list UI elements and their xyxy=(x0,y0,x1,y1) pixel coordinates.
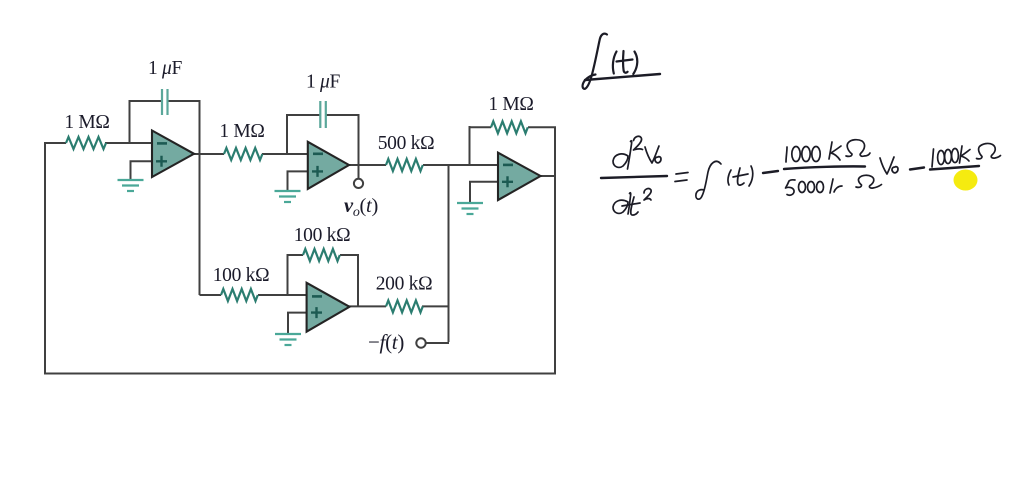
svg-text:1 μF: 1 μF xyxy=(306,72,341,93)
wire stage1 feedback top left xyxy=(129,100,162,102)
wire stage1 feedback top right xyxy=(168,100,201,102)
hw o sub xyxy=(655,157,661,163)
hw V of Vo xyxy=(645,146,659,163)
resistor R3 500 kohm xyxy=(386,159,423,171)
hw minus 1 xyxy=(763,171,778,173)
hw ) of f(t) xyxy=(749,166,753,186)
wire stage2 right vertical to terminal xyxy=(358,114,360,178)
hw 5 of den2 xyxy=(786,180,796,195)
svg-text:100 kΩ: 100 kΩ xyxy=(213,265,270,286)
hw omega of den2 xyxy=(856,175,882,188)
hw omega of num3 xyxy=(977,143,1001,158)
svg-text:1 MΩ: 1 MΩ xyxy=(64,112,109,133)
hw title underline xyxy=(585,74,660,80)
hw ( of f(t) xyxy=(728,170,731,185)
hw title ( xyxy=(613,52,617,74)
wire input stage1 right xyxy=(105,142,153,144)
hw frac bar 2 xyxy=(784,166,865,169)
ground stage1 xyxy=(118,180,144,191)
wire R2 to opamp2 xyxy=(262,153,308,155)
svg-text:1 MΩ: 1 MΩ xyxy=(488,94,533,115)
handwriting group xyxy=(583,34,1001,215)
wire R7 to node xyxy=(422,305,449,307)
wire -f(t) terminal to node xyxy=(426,342,449,344)
hw t of dt2 xyxy=(631,197,638,215)
wire stage3 feedback top left xyxy=(469,126,492,128)
hw sup 2 xyxy=(634,136,643,150)
wire left rail xyxy=(44,142,46,374)
hw title f xyxy=(583,34,607,89)
resistor R4 1 Mohm feedback stage3 xyxy=(491,121,528,133)
terminal -f(t) xyxy=(416,338,425,347)
yellow highlight dot xyxy=(954,170,978,191)
hw 1 of num2 xyxy=(786,147,787,162)
hw title t xyxy=(623,51,628,73)
svg-text:500 kΩ: 500 kΩ xyxy=(378,133,435,154)
hw 000 of den2 xyxy=(799,182,806,193)
resistor R5 100 kohm stage4 input xyxy=(221,289,258,301)
hw lc (k) of den2 xyxy=(830,179,833,193)
svg-text:1 MΩ: 1 MΩ xyxy=(219,121,264,142)
hw 2 sup of dt2 xyxy=(644,189,651,200)
ground stage2 xyxy=(275,191,301,202)
hw title ) xyxy=(633,52,637,75)
hw k of num2 xyxy=(829,142,832,159)
wire stage2 plus input xyxy=(288,171,309,190)
ground stage3 xyxy=(457,203,483,214)
svg-text:200 kΩ: 200 kΩ xyxy=(376,274,433,295)
terminal vo(t) xyxy=(354,179,363,188)
hw frac bar 1 xyxy=(601,176,667,178)
wire R3 to opamp3 xyxy=(423,164,499,166)
resistor R6 100 kohm feedback stage4 xyxy=(303,249,340,261)
wire stage2 output xyxy=(347,164,386,166)
node junction vertical xyxy=(448,165,450,342)
svg-text:vo(t): vo(t) xyxy=(344,195,378,220)
wire stage4 plus input xyxy=(288,313,308,333)
wire stage1 feedback left vertical xyxy=(129,100,131,143)
wire input stage1 left xyxy=(44,142,66,144)
wire stage4 output xyxy=(348,305,386,307)
wire stage1 output horizontal xyxy=(193,153,224,155)
wire stage4 feedback top right xyxy=(340,254,359,256)
wire bottom rail xyxy=(44,373,555,375)
hw d of d2Vo xyxy=(628,141,632,169)
wire stage3 output xyxy=(539,175,556,177)
hw 000 of num3 xyxy=(938,151,945,165)
wire stage2 feedback top left xyxy=(286,114,320,116)
svg-text:−f(t): −f(t) xyxy=(368,330,404,354)
wire stage3 plus input xyxy=(470,182,499,202)
wire stage4 input from node xyxy=(200,294,222,296)
resistor R7 200 kohm xyxy=(386,300,423,312)
hw t of f(t) xyxy=(738,168,744,185)
op-amp U4 xyxy=(307,283,350,332)
hw frac bar 3 xyxy=(930,166,979,170)
hw V of Vo term xyxy=(880,157,894,174)
resistor R1 1 Mohm input stage1 xyxy=(66,137,106,149)
wire stage4 feedback top left xyxy=(287,254,304,256)
resistor R2 1 Mohm stage2 input xyxy=(224,148,262,160)
hw minus 2 xyxy=(910,168,924,170)
wire stage3 feedback left vertical xyxy=(469,126,471,165)
wire stage3 feedback top right xyxy=(528,126,556,128)
hw d of dt2 xyxy=(628,193,631,214)
hw 000 of num2 xyxy=(792,147,800,162)
wire stage1 plus input xyxy=(131,161,154,179)
wire stage1 output vertical xyxy=(199,100,201,295)
wire R5 to opamp4 xyxy=(258,294,308,296)
wire stage4 right vertical xyxy=(357,254,359,306)
ground stage4 xyxy=(275,334,301,345)
hw f of f(t) xyxy=(696,161,721,199)
hw equals xyxy=(676,173,688,175)
wire stage4 feedback left vertical xyxy=(287,254,289,295)
hw 1 of num3 xyxy=(932,149,934,167)
wire right rail xyxy=(554,127,556,375)
hw o sub of Vo term xyxy=(892,167,898,173)
wire stage2 feedback left vertical xyxy=(286,114,288,154)
svg-text:100 kΩ: 100 kΩ xyxy=(294,225,351,246)
op-amp U2 xyxy=(308,142,349,189)
capacitor C2 1 uF plates xyxy=(320,101,326,128)
svg-text:1 μF: 1 μF xyxy=(148,58,183,79)
op-amp U3 xyxy=(498,153,541,200)
wire stage2 feedback top right xyxy=(326,114,359,116)
hw omega of num2 xyxy=(846,140,870,157)
op-amp U1 xyxy=(152,131,194,178)
capacitor C1 1 uF plates xyxy=(162,89,168,115)
hw k of num3 xyxy=(960,146,963,163)
